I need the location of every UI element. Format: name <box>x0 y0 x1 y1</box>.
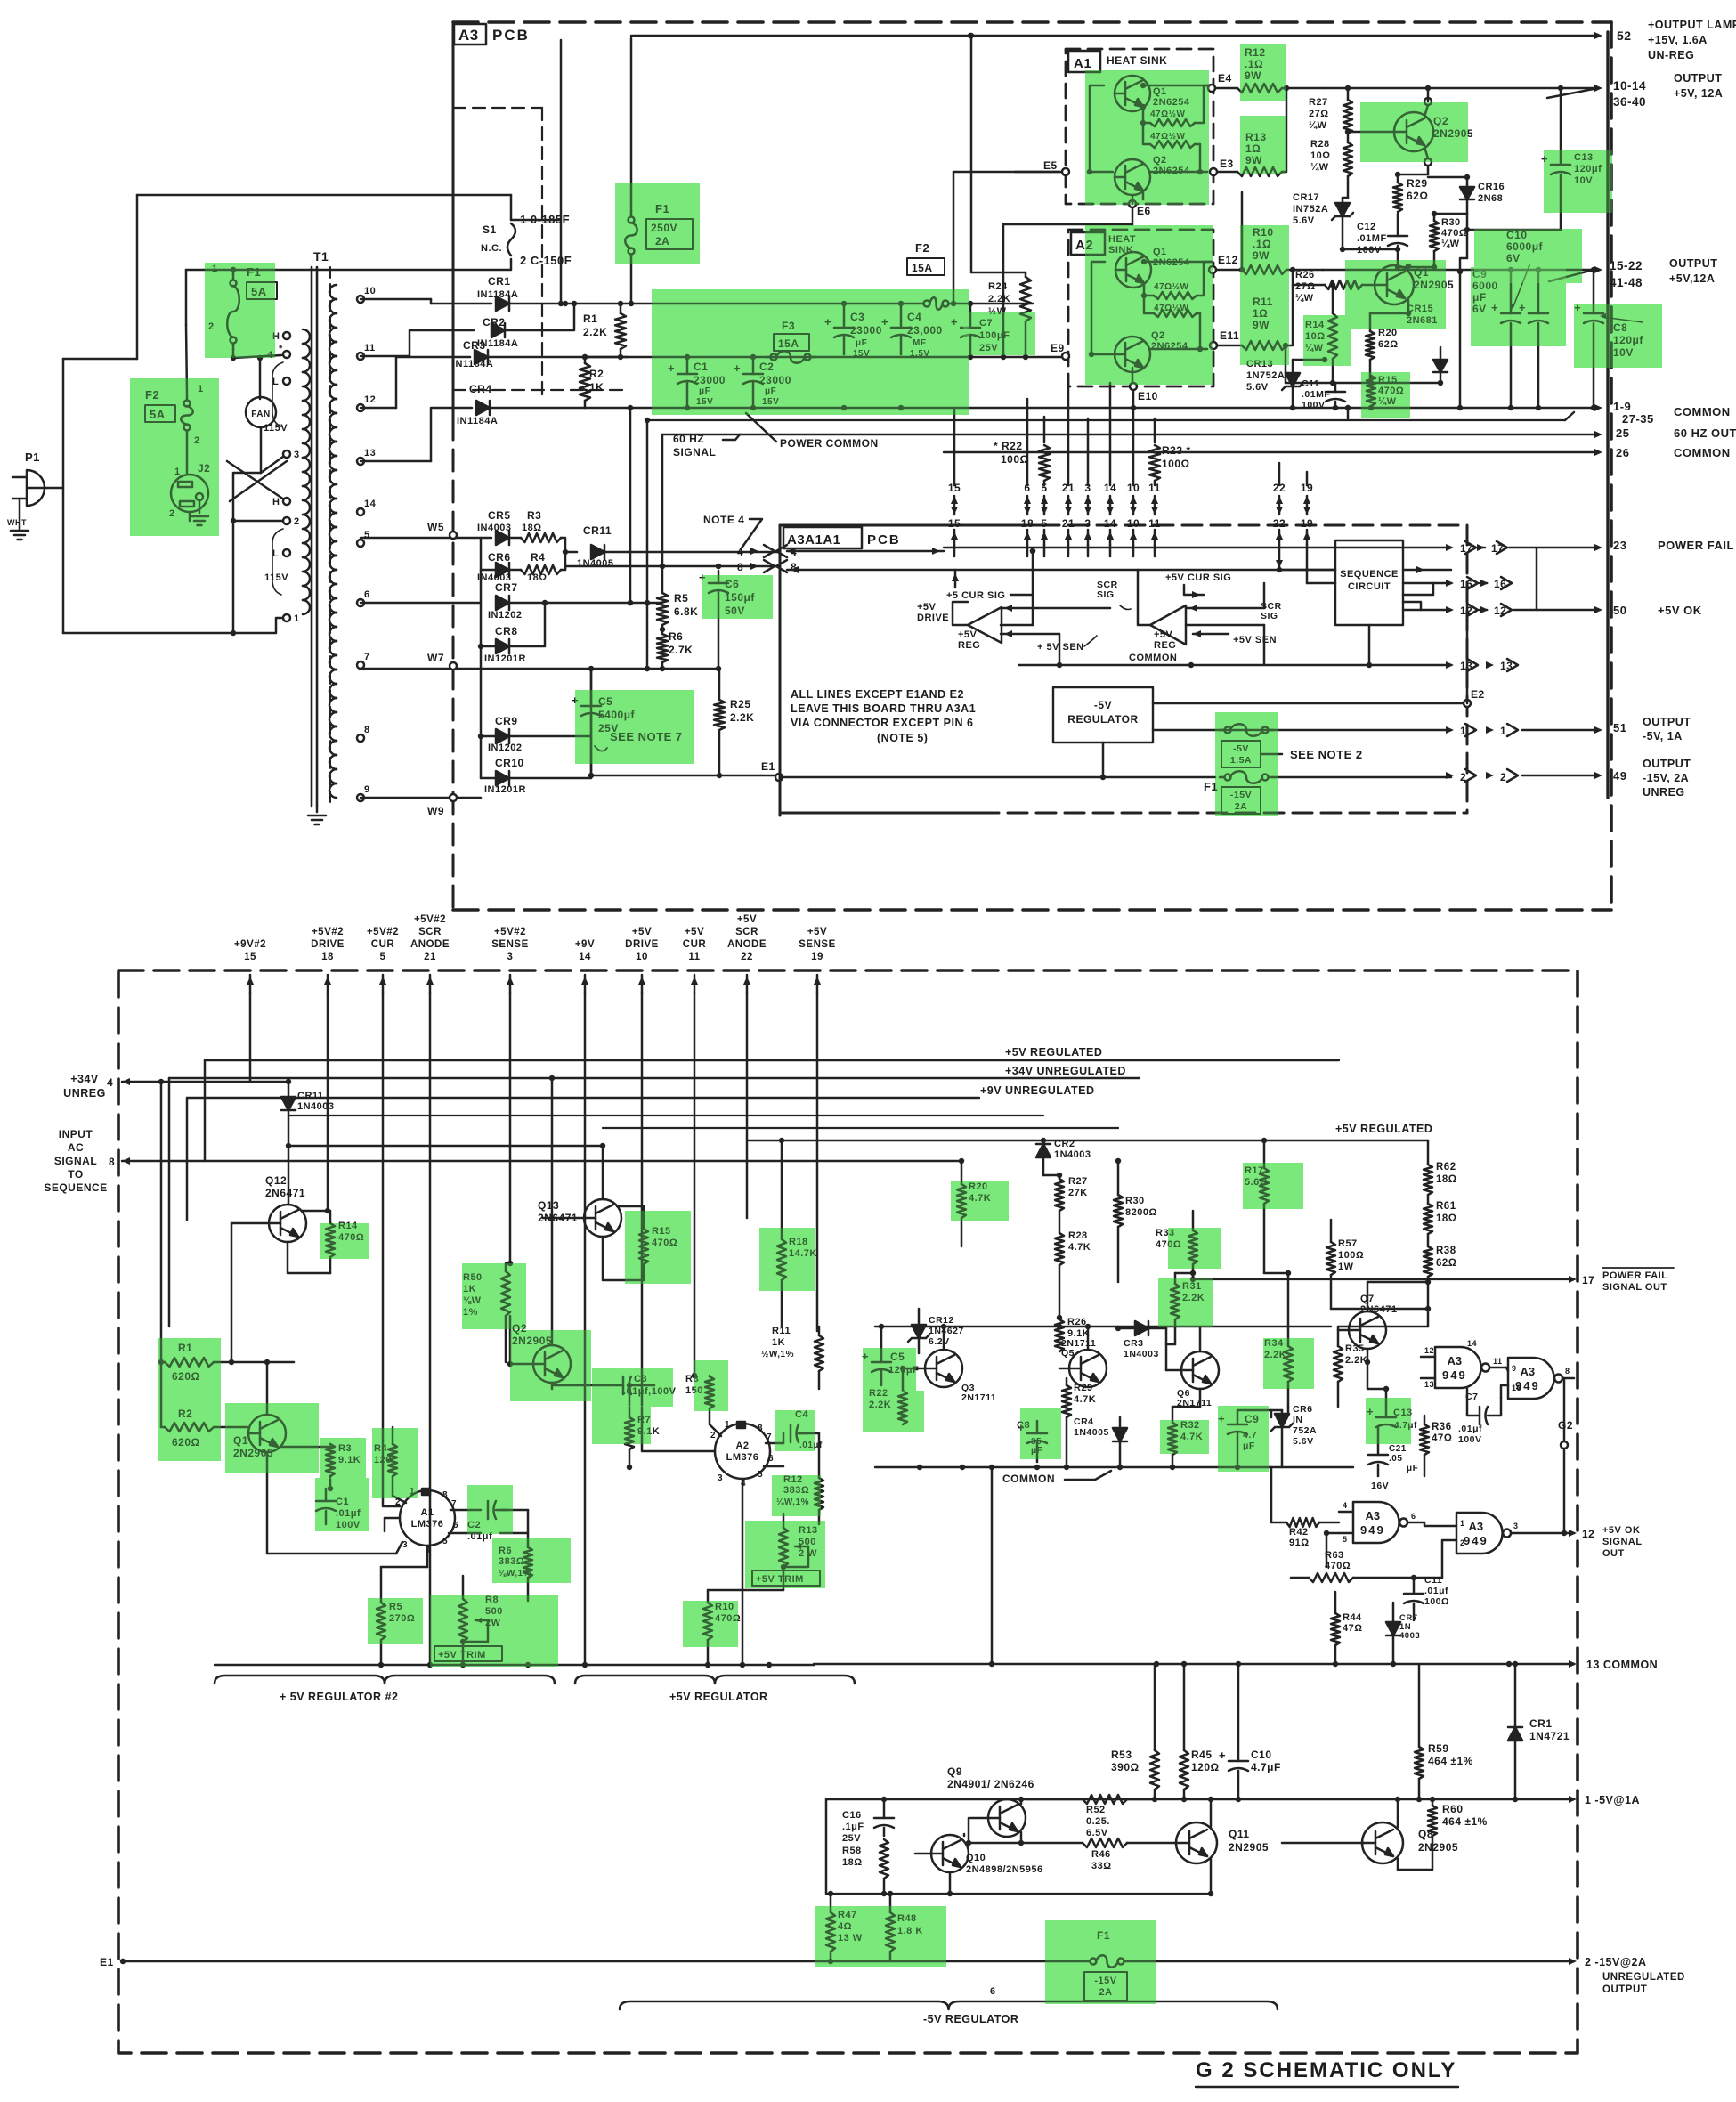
svg-text:1K: 1K <box>589 381 604 394</box>
highlight R13 pot G2 <box>745 1521 825 1588</box>
svg-text:18Ω: 18Ω <box>1436 1174 1457 1185</box>
wire E2 <box>1153 702 1467 705</box>
svg-text:2N1711: 2N1711 <box>961 1392 996 1403</box>
wire R13 column <box>1241 192 1244 270</box>
highlight Q1 G2 tint <box>225 1403 319 1473</box>
svg-text:22: 22 <box>1273 517 1286 530</box>
brace -5V regulator <box>620 2001 1278 2009</box>
svg-text:Q13: Q13 <box>538 1199 559 1212</box>
resistor R22 2.2K (G2) <box>898 1391 907 1424</box>
op amp +5V REG 1 <box>968 607 1002 643</box>
highlight R14 470 G2 <box>320 1223 369 1259</box>
resistor R52 0.25 <box>1083 1795 1127 1804</box>
highlight C6 <box>702 575 773 619</box>
svg-text:*: * <box>279 344 283 354</box>
svg-text:16V: 16V <box>1371 1481 1389 1491</box>
svg-text:3: 3 <box>402 1540 408 1550</box>
resistor R20 62ohm <box>1366 331 1375 360</box>
svg-text:2 -15V@2A: 2 -15V@2A <box>1585 1956 1647 1968</box>
svg-text:R29: R29 <box>1407 177 1428 190</box>
highlight R12 9W tint <box>1240 44 1286 101</box>
svg-text:Q8: Q8 <box>1418 1828 1433 1840</box>
svg-text:R28: R28 <box>1068 1230 1088 1241</box>
wire gate3 lower input <box>1326 1533 1339 1567</box>
emitter resistors 47ohm (A2) <box>1154 292 1197 299</box>
transformer ground <box>316 806 319 812</box>
svg-text:5.6V: 5.6V <box>1293 1436 1314 1447</box>
highlight R22 G2 <box>863 1391 924 1432</box>
resistor R48 1.8K <box>886 1912 895 1952</box>
svg-text:.01MF: .01MF <box>1302 389 1330 400</box>
resistor R57 100ohm <box>1326 1242 1335 1275</box>
resistor R44 47 <box>1331 1613 1340 1645</box>
svg-text:3: 3 <box>507 952 514 962</box>
svg-text:IN1202: IN1202 <box>488 610 522 621</box>
svg-text:+5V: +5V <box>1154 629 1173 640</box>
G2 pin column wires <box>249 993 252 1082</box>
svg-text:E12: E12 <box>1218 254 1238 266</box>
svg-text:R4: R4 <box>531 551 545 564</box>
svg-text:1W: 1W <box>1338 1262 1354 1272</box>
svg-text:6: 6 <box>1411 1512 1416 1521</box>
svg-text:15: 15 <box>948 517 961 530</box>
svg-text:+9V#2: +9V#2 <box>234 939 266 950</box>
svg-text:-5V: -5V <box>1094 699 1112 711</box>
svg-text:R60: R60 <box>1442 1803 1464 1815</box>
resistor R10 .1ohm 9W <box>1242 265 1286 274</box>
highlight R34 G2 tint <box>1263 1338 1314 1389</box>
svg-text:CUR: CUR <box>683 939 707 950</box>
capacitor C4 .01uF (G2) <box>790 1424 792 1442</box>
svg-text:6.5V: 6.5V <box>1086 1828 1108 1838</box>
wire tap10 to CR1 <box>361 298 431 301</box>
svg-text:R11: R11 <box>772 1326 791 1336</box>
highlight R34 G2 <box>1263 1338 1314 1389</box>
svg-text:CR3: CR3 <box>1124 1338 1144 1349</box>
svg-text:27Ω: 27Ω <box>1295 281 1316 292</box>
resistor R47 4ohm <box>826 1912 835 1952</box>
fan motor <box>246 397 276 427</box>
highlight C3 G2 tint <box>592 1368 673 1407</box>
highlight C8 35uF G2 <box>1020 1408 1061 1459</box>
wire common rail second <box>647 419 1565 421</box>
svg-text:CR17: CR17 <box>1293 192 1319 203</box>
svg-text:5.6V: 5.6V <box>1246 382 1269 393</box>
svg-text:+5V REGULATOR: +5V REGULATOR <box>669 1691 768 1703</box>
wire bottom rail to transformer <box>232 521 235 633</box>
svg-text:+5V#2: +5V#2 <box>312 927 344 937</box>
capacitor C8 (G2) <box>1027 1432 1047 1435</box>
transistor Q5 2N1711 <box>1069 1350 1107 1387</box>
zener CR12 <box>912 1325 926 1338</box>
highlight R12 383 G2 tint <box>772 1475 821 1516</box>
svg-text:TO: TO <box>68 1168 83 1181</box>
highlight R12 383 G2 <box>772 1475 821 1516</box>
svg-text:REG: REG <box>958 640 980 651</box>
highlight R8 150 tint <box>694 1360 728 1411</box>
svg-text:27Ω: 27Ω <box>1309 109 1329 119</box>
G2 bottom rail 1870 <box>215 1664 815 1666</box>
highlight R20 G2 <box>951 1181 1009 1221</box>
wire P1 to input loop <box>46 487 63 490</box>
ground at P1 <box>11 530 28 532</box>
svg-text:W9: W9 <box>427 805 444 817</box>
svg-text:R29: R29 <box>1074 1383 1093 1393</box>
nand gate A3 949 #2 <box>1508 1358 1554 1399</box>
svg-text:L: L <box>272 548 279 559</box>
svg-text:.01μf: .01μf <box>1458 1424 1482 1434</box>
capacitor C5 5400uF 25V <box>581 705 601 708</box>
svg-text:SIGNAL: SIGNAL <box>1602 1537 1643 1547</box>
highlight C3 G2 <box>592 1368 673 1407</box>
resistor R22 100ohm <box>1039 445 1050 481</box>
transistor Q2 2N6254 (A2) <box>1115 337 1150 372</box>
svg-text:+5V,12A: +5V,12A <box>1669 272 1715 285</box>
highlight R33 G2 tint <box>1168 1228 1221 1269</box>
svg-text:14: 14 <box>1467 1339 1477 1348</box>
svg-text:62Ω: 62Ω <box>1436 1258 1457 1269</box>
svg-text:LEAVE THIS BOARD THRU A3A1: LEAVE THIS BOARD THRU A3A1 <box>791 702 976 715</box>
highlight R32 G2 tint <box>1160 1420 1209 1454</box>
diode CR5 <box>496 531 509 545</box>
highlight R13 9W <box>1240 116 1286 174</box>
A3A1A1 PCB label <box>783 527 862 548</box>
svg-text:A3: A3 <box>458 27 479 44</box>
resistor R32 4.7K (G2) <box>1168 1423 1177 1455</box>
svg-text:47Ω: 47Ω <box>1432 1433 1453 1444</box>
highlight R12 9W <box>1240 44 1286 101</box>
svg-text:+5V#2: +5V#2 <box>414 914 446 925</box>
A2 label <box>1071 232 1105 255</box>
connector pins 4 and 8 <box>750 548 758 555</box>
svg-text:50: 50 <box>1613 604 1626 617</box>
wire 50 +5V OK rail <box>1536 548 1538 610</box>
A1 internal wires <box>1090 85 1113 172</box>
resistor R12 383 (G2) <box>815 1478 823 1510</box>
highlight R13 9W tint <box>1240 116 1286 174</box>
highlight R8 150 <box>694 1360 728 1411</box>
svg-text:E9: E9 <box>1051 342 1065 354</box>
emitter resistors 47ohm (A1) <box>1150 119 1195 126</box>
svg-text:470Ω: 470Ω <box>1441 228 1467 239</box>
svg-text:UNREG: UNREG <box>63 1087 106 1100</box>
svg-text:SEQUENCE: SEQUENCE <box>1340 569 1399 580</box>
svg-text:R61: R61 <box>1436 1201 1456 1212</box>
wires Q9 cluster <box>825 1799 828 1894</box>
resistor R60 464 <box>1428 1806 1437 1836</box>
svg-text:464 ±1%: 464 ±1% <box>1428 1755 1473 1767</box>
svg-text:A3: A3 <box>1366 1509 1381 1522</box>
right connector strip <box>1606 32 1609 798</box>
svg-text:2 C-150F: 2 C-150F <box>520 254 572 267</box>
svg-text:15: 15 <box>244 952 256 962</box>
svg-text:E3: E3 <box>1220 158 1234 170</box>
wire -5V out <box>1153 729 1451 732</box>
bus +5V regulated right <box>748 1140 1428 1141</box>
pot R8 500 2W <box>458 1599 467 1642</box>
svg-text:CR2: CR2 <box>1054 1139 1075 1149</box>
A2 pin wires <box>710 1424 721 1436</box>
+5V TRIM box 1 <box>434 1646 502 1661</box>
svg-text:CIRCUIT: CIRCUIT <box>1348 581 1391 592</box>
svg-text:41-48: 41-48 <box>1610 276 1643 289</box>
svg-text:OUTPUT: OUTPUT <box>1602 1984 1647 1995</box>
svg-text:+5V SEN: +5V SEN <box>1233 635 1277 645</box>
highlight C10 tint <box>1474 229 1582 283</box>
svg-text:752A: 752A <box>1293 1425 1317 1436</box>
svg-text:2: 2 <box>294 516 300 527</box>
svg-text:ANODE: ANODE <box>410 939 450 950</box>
sequence circuit box <box>1335 540 1403 625</box>
transistor Q7 2N6471 <box>1349 1311 1386 1349</box>
resistor R27 27K <box>1055 1179 1064 1211</box>
svg-text:1N4721: 1N4721 <box>1529 1730 1570 1742</box>
node dots power rails <box>750 354 756 360</box>
highlight R10 R11 9W <box>1240 225 1289 365</box>
transformer T1 secondary winding <box>329 285 337 299</box>
resistor R30 470ohm <box>1430 221 1439 251</box>
svg-text:+5V#2: +5V#2 <box>494 927 526 937</box>
capacitor C13 4.7uF (G2) <box>1376 1416 1396 1419</box>
capacitor C6 150uF 50V <box>709 582 728 585</box>
capacitor C8 120uF <box>1584 312 1603 315</box>
wire input top run <box>137 194 511 197</box>
svg-text:4.7K: 4.7K <box>1074 1394 1096 1405</box>
bottom rail 2127 <box>826 1893 1211 1895</box>
diode CR7 <box>496 596 509 610</box>
resistor R62 18 <box>1424 1165 1432 1195</box>
wire 60hz riser <box>629 408 632 603</box>
transistor Q10 <box>931 1835 969 1872</box>
-5V 1A rail <box>826 1798 1574 1800</box>
wire E1 to fuse row <box>780 776 1215 779</box>
svg-text:SCR: SCR <box>735 927 758 937</box>
op amp A1 LM376 <box>400 1490 455 1546</box>
capacitor C21 .05 <box>1368 1454 1388 1457</box>
highlight Q2 2N2905 <box>1360 102 1468 162</box>
diode CR4 (G2) <box>1113 1428 1127 1441</box>
highlight C5 120uF G2 tint <box>863 1348 916 1392</box>
svg-text:10-14: 10-14 <box>1613 79 1646 93</box>
resistor R46 33 <box>1083 1838 1127 1847</box>
svg-text:SIGNAL: SIGNAL <box>673 446 716 459</box>
highlight R31 2.2K G2 tint <box>1158 1278 1213 1327</box>
svg-text:9: 9 <box>1512 1364 1517 1373</box>
svg-text:27K: 27K <box>1068 1188 1088 1198</box>
svg-text:-5V, 1A: -5V, 1A <box>1643 730 1683 743</box>
highlight R14 470 G2 tint <box>320 1223 369 1259</box>
diode CR10 <box>496 771 509 785</box>
svg-text:INPUT: INPUT <box>59 1128 93 1140</box>
svg-text:+5V: +5V <box>958 629 978 640</box>
svg-text:11: 11 <box>688 952 700 962</box>
svg-text:* R22: * R22 <box>994 440 1023 452</box>
svg-text:7: 7 <box>767 1432 772 1442</box>
resistor R15 470 (G2) <box>639 1229 648 1264</box>
diode CR1 <box>496 296 509 311</box>
svg-text:+15V, 1.6A: +15V, 1.6A <box>1648 34 1708 46</box>
wires op amp2 <box>1186 607 1264 610</box>
svg-text:PCB: PCB <box>492 27 530 44</box>
svg-text:R5: R5 <box>674 592 688 605</box>
svg-text:C21: C21 <box>1389 1444 1407 1454</box>
svg-text:Q5: Q5 <box>1061 1348 1075 1359</box>
svg-text:SIGNAL OUT: SIGNAL OUT <box>1602 1282 1667 1293</box>
wire tap13 to CR4 <box>361 460 431 463</box>
highlight R50 tint <box>462 1263 526 1329</box>
diode CR2 <box>1036 1144 1051 1157</box>
resistor R13 1ohm 9W <box>1237 167 1282 176</box>
wire CR16 to rail <box>1466 214 1469 230</box>
highlight C1 C2 F3 block tint <box>652 289 969 415</box>
svg-text:POWER COMMON: POWER COMMON <box>780 437 879 450</box>
svg-text:4: 4 <box>1343 1501 1348 1510</box>
svg-text:949: 949 <box>1464 1534 1489 1547</box>
wires lower cluster <box>1286 382 1440 385</box>
svg-text:½W,1%: ½W,1% <box>761 1350 794 1359</box>
highlight C8 tint <box>1574 304 1662 368</box>
svg-text:62Ω: 62Ω <box>1378 339 1399 350</box>
svg-text:CUR: CUR <box>371 939 395 950</box>
highlight C13 G2 <box>1366 1398 1411 1444</box>
svg-text:A2: A2 <box>735 1441 749 1451</box>
svg-text:3: 3 <box>1513 1522 1519 1530</box>
svg-text:L: L <box>272 377 279 387</box>
highlight F1 250V fuse <box>615 183 700 264</box>
highlight F2 5A and J2 <box>130 378 219 536</box>
highlight R47 R48 <box>815 1906 946 1967</box>
svg-text:R27: R27 <box>1068 1176 1088 1187</box>
svg-text:SEQUENCE: SEQUENCE <box>44 1181 107 1194</box>
svg-text:+5V#2: +5V#2 <box>367 927 399 937</box>
svg-text:UNREGULATED: UNREGULATED <box>1602 1972 1685 1983</box>
wire rails to caps <box>565 303 919 304</box>
svg-text:SEE NOTE 2: SEE NOTE 2 <box>1290 748 1363 761</box>
svg-text:R1: R1 <box>583 312 597 325</box>
resistor R24 2.2K <box>1020 277 1031 321</box>
svg-text:6: 6 <box>768 1454 774 1464</box>
highlight C4 G2 tint <box>775 1410 815 1451</box>
highlight R13 pot G2 tint <box>745 1521 825 1588</box>
svg-text:22: 22 <box>741 952 753 962</box>
svg-text:IN1201R: IN1201R <box>484 784 526 795</box>
highlight C6 tint <box>702 575 773 619</box>
svg-text:2N2905: 2N2905 <box>1229 1841 1269 1854</box>
highlight R6 383 <box>492 1538 571 1583</box>
transistor Q11 2N2905 <box>1176 1822 1217 1863</box>
resistor R28 10ohm <box>1343 142 1352 176</box>
power fail signal line <box>1193 1278 1574 1280</box>
svg-text:5: 5 <box>380 952 386 962</box>
highlight R8 pot trim tint <box>430 1595 558 1667</box>
resistor R14 470 (G2) <box>326 1223 335 1257</box>
svg-text:15-22: 15-22 <box>1610 259 1643 272</box>
highlight R6 383 tint <box>492 1538 571 1583</box>
svg-text:1 -5V@1A: 1 -5V@1A <box>1585 1794 1640 1806</box>
svg-text:21: 21 <box>424 952 436 962</box>
svg-text:DRIVE: DRIVE <box>917 613 949 623</box>
svg-text:CR1: CR1 <box>488 275 511 288</box>
wire S1 contact riser <box>560 40 563 304</box>
fuse F2 5A <box>186 394 189 400</box>
transformer primary taps <box>283 332 290 339</box>
Q1 wires <box>1407 266 1410 270</box>
node E9 <box>1062 353 1069 360</box>
bus line 4 <box>288 1115 1043 1116</box>
svg-text:-15V, 2A: -15V, 2A <box>1643 772 1689 784</box>
resistor R42 91 <box>1286 1518 1319 1527</box>
resistor R25 2.2K <box>714 700 725 730</box>
wire common2 rail <box>944 451 1598 453</box>
svg-text:16: 16 <box>1512 1384 1521 1392</box>
wire +5V output rail 1 <box>1323 87 1598 90</box>
svg-text:+5V: +5V <box>737 914 757 925</box>
svg-text:60 HZ OUTPUT: 60 HZ OUTPUT <box>1674 426 1736 440</box>
resistor R26 9.1K <box>1055 1319 1064 1351</box>
resistor R59 464 <box>1415 1747 1424 1779</box>
capacitor C3 .01uF 100V <box>552 1384 570 1387</box>
svg-text:8: 8 <box>442 1490 448 1500</box>
svg-text:IN4003: IN4003 <box>477 523 511 533</box>
capacitor C11 .01uF 100 <box>1404 1593 1424 1595</box>
highlight Q2 2N2905 tint <box>1360 102 1468 162</box>
svg-text:+5V: +5V <box>685 927 704 937</box>
svg-text:+5V REGULATED: +5V REGULATED <box>1335 1123 1432 1135</box>
svg-text:IN1184A: IN1184A <box>457 416 498 426</box>
resistor R1 2.2K <box>615 313 626 349</box>
svg-text:2: 2 <box>1500 771 1506 783</box>
svg-text:R25: R25 <box>730 698 751 710</box>
resistor R20 4.7K (G2) <box>957 1184 966 1218</box>
op amp A2 LM376 <box>715 1424 770 1479</box>
capacitor C5 120uF (G2) <box>872 1361 891 1364</box>
highlight Q1 G2 <box>225 1403 319 1473</box>
svg-text:R30: R30 <box>1125 1196 1145 1206</box>
-5V regulator box <box>1053 687 1153 743</box>
svg-text:CR11: CR11 <box>297 1091 324 1101</box>
svg-text:27-35: 27-35 <box>1622 412 1654 426</box>
svg-text:33Ω: 33Ω <box>1091 1861 1112 1871</box>
svg-text:26: 26 <box>1616 446 1629 459</box>
svg-text:W7: W7 <box>427 652 444 664</box>
svg-text:949: 949 <box>1360 1523 1385 1537</box>
svg-text:μF: μF <box>1407 1464 1418 1473</box>
svg-text:5.6V: 5.6V <box>1293 215 1315 226</box>
transistor Q9 <box>988 1799 1026 1837</box>
highlight R32 G2 <box>1160 1420 1209 1454</box>
svg-text:CR9: CR9 <box>495 715 518 727</box>
svg-text:R45: R45 <box>1191 1749 1213 1761</box>
resistor R63 470 <box>1309 1573 1353 1582</box>
capacitor C7 100uF <box>961 327 980 329</box>
wire 12 line <box>1403 609 1451 612</box>
capacitor C13 120uF <box>1551 164 1570 166</box>
svg-text:.05: .05 <box>1389 1454 1402 1464</box>
svg-text:+5V: +5V <box>632 927 652 937</box>
svg-text:R46: R46 <box>1091 1849 1111 1860</box>
highlight R31 2.2K G2 <box>1158 1278 1213 1327</box>
svg-text:11: 11 <box>1148 517 1161 530</box>
transistor Q1 2N2905 (G2) <box>248 1415 286 1452</box>
svg-text:1N4003: 1N4003 <box>297 1101 335 1112</box>
svg-text:A3: A3 <box>1448 1354 1463 1368</box>
node joins rails <box>572 301 577 306</box>
svg-text:LM376: LM376 <box>411 1519 444 1530</box>
wire fan/primary crossing <box>233 355 281 358</box>
svg-text:10: 10 <box>1127 517 1140 530</box>
svg-text:4003: 4003 <box>1399 1631 1420 1641</box>
svg-text:8: 8 <box>1565 1367 1570 1376</box>
